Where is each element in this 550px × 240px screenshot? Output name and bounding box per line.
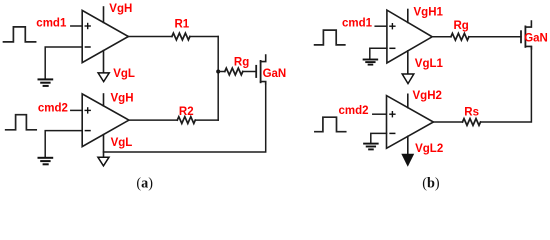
wire node to Rg — [218, 71, 225, 73]
svg-text:VgL2: VgL2 — [415, 143, 443, 155]
svg-text:R1: R1 — [175, 18, 190, 30]
bus wire vertical — [217, 37, 219, 121]
svg-text:cmd2: cmd2 — [38, 103, 68, 115]
op-amp U3 — [387, 10, 432, 63]
wire Q1 source to VgL rail — [104, 82, 266, 152]
svg-text:R2: R2 — [179, 106, 194, 118]
pulse source icon for cmd1 — [4, 27, 36, 42]
op-amp U1 — [82, 10, 128, 62]
pulse source icon for cmd2 (b) — [315, 117, 346, 132]
wire U1 - input to ground — [45, 47, 82, 79]
svg-text:VgH1: VgH1 — [414, 7, 444, 19]
resistor Rs — [463, 119, 481, 126]
resistor R1 — [172, 33, 190, 40]
VgH1 supply pin (U3) — [407, 10, 409, 23]
svg-text:Rg: Rg — [454, 20, 469, 32]
transistor Q2 GaN — [520, 31, 522, 42]
transistor Q1 GaN — [255, 66, 257, 77]
wire Q2 source to Rs — [481, 47, 532, 122]
wire cmd1 to U1 + input — [71, 25, 82, 27]
VgL1 arrow (open) — [402, 74, 414, 84]
ground symbol (U4) — [364, 143, 378, 145]
op-amp U4 — [387, 96, 434, 149]
resistor Rg — [225, 68, 243, 75]
wire U2 output — [129, 119, 177, 121]
wire cmd2 to U4 + input — [373, 113, 387, 115]
wire Rg to Q1 gate — [243, 71, 256, 73]
svg-text:cmd2: cmd2 — [339, 105, 369, 117]
wire U4 - input to ground — [371, 133, 387, 143]
ground symbol (U3) — [364, 59, 378, 61]
ground symbol (U2) — [39, 157, 53, 159]
wire U1 output — [128, 36, 172, 38]
wire cmd1 to U3 + input — [375, 25, 387, 27]
svg-text:GaN: GaN — [263, 68, 287, 80]
op-amp U2 — [82, 94, 129, 147]
wire U4 output — [433, 121, 462, 123]
svg-text:cmd1: cmd1 — [36, 18, 67, 30]
wire Rg to Q2 gate — [469, 36, 521, 38]
VgH2 supply pin (U4) — [407, 94, 409, 107]
svg-text:Rg: Rg — [234, 56, 249, 68]
VgL1 supply pin (U3) — [407, 51, 409, 74]
svg-text:VgL1: VgL1 — [415, 58, 444, 70]
wire U3 - input to ground — [370, 48, 387, 59]
wire U3 output — [432, 36, 451, 38]
resistor R2 — [177, 117, 195, 124]
svg-text:(a): (a) — [136, 176, 153, 192]
VgL supply pin (U1) — [103, 51, 105, 73]
wire cmd2 to U2 + input — [71, 109, 82, 111]
pulse source icon for cmd2 — [6, 115, 37, 130]
wire R1 to bus corner — [190, 36, 218, 38]
VgL arrow (U1) — [98, 73, 109, 82]
ground symbol (U1) — [39, 78, 53, 80]
svg-text:VgH2: VgH2 — [413, 90, 442, 102]
VgH supply pin (U2) — [103, 94, 105, 106]
svg-text:VgH: VgH — [109, 3, 132, 15]
VgL arrow (U2) — [98, 157, 109, 166]
svg-text:VgL: VgL — [111, 137, 133, 149]
resistor Rg (b) — [451, 33, 469, 40]
pulse source icon for cmd1 (b) — [315, 30, 345, 45]
VgL2 arrow (filled) — [401, 154, 414, 167]
svg-text:(b): (b) — [422, 176, 440, 192]
wire U2 - input to ground — [45, 131, 82, 157]
svg-text:GaN: GaN — [524, 33, 548, 45]
wire R2 to bus corner — [195, 119, 218, 121]
VgL supply pin (U2) — [103, 135, 105, 157]
junction node — [216, 70, 220, 74]
svg-text:Rs: Rs — [464, 107, 479, 119]
svg-text:VgH: VgH — [111, 93, 134, 105]
svg-text:cmd1: cmd1 — [342, 18, 373, 30]
svg-text:VgL: VgL — [113, 68, 135, 80]
VgL2 supply pin (U4) — [407, 136, 409, 153]
VgH supply pin (U1) — [103, 7, 105, 22]
